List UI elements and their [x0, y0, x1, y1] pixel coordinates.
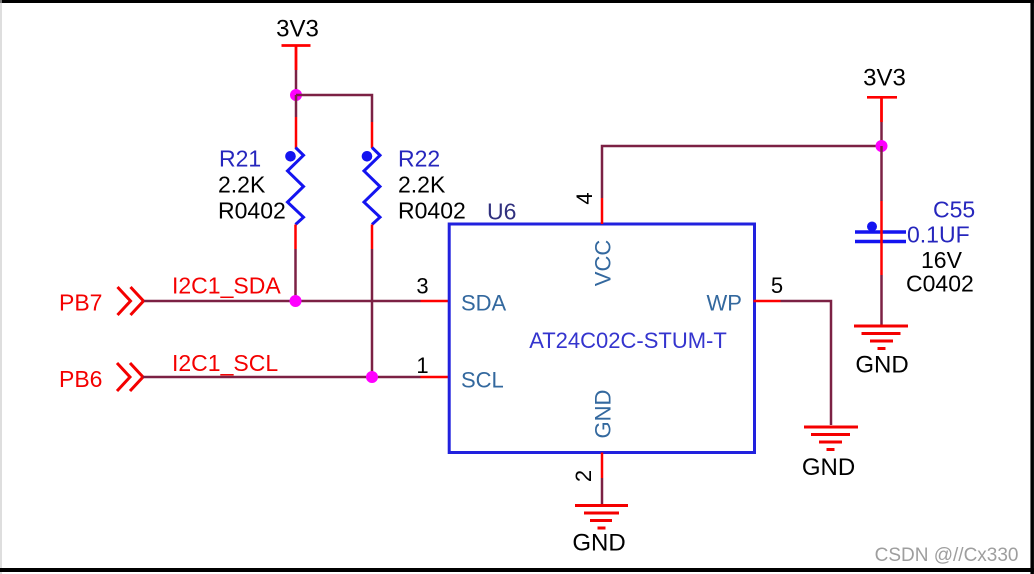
- svg-text:GND: GND: [591, 390, 616, 439]
- pin R22 top: [371, 122, 374, 148]
- pin R21 bottom: [294, 225, 297, 250]
- svg-text:SDA: SDA: [461, 291, 507, 316]
- wire 3V3 right to junction: [880, 122, 883, 146]
- svg-text:I2C1_SDA: I2C1_SDA: [172, 273, 281, 299]
- svg-text:16V: 16V: [921, 247, 963, 273]
- node junction VCC: [876, 140, 888, 152]
- svg-text:R0402: R0402: [398, 198, 466, 224]
- wire SDA: [144, 300, 421, 303]
- svg-text:CSDN @//Cx330: CSDN @//Cx330: [875, 545, 1019, 566]
- ground WP: [802, 427, 858, 481]
- node junction 3V3: [290, 89, 302, 101]
- svg-text:I2C1_SCL: I2C1_SCL: [172, 350, 278, 376]
- node junction SDA: [290, 295, 302, 307]
- pin R22 bottom: [371, 225, 374, 250]
- wire junction to C55: [880, 146, 883, 201]
- power port 3V3 right: [863, 65, 906, 123]
- svg-text:1: 1: [416, 353, 428, 378]
- wire C55 to ground: [880, 275, 883, 326]
- svg-text:0.1UF: 0.1UF: [907, 222, 970, 248]
- svg-text:WP: WP: [707, 291, 742, 316]
- svg-text:2.2K: 2.2K: [218, 172, 266, 198]
- svg-text:U6: U6: [487, 199, 516, 225]
- wire pin2 to ground: [601, 478, 604, 504]
- pin 5 WP stub: [754, 300, 781, 303]
- pin U6 SDA stub: [421, 300, 451, 303]
- svg-text:SCL: SCL: [461, 368, 504, 393]
- svg-text:R21: R21: [219, 146, 261, 172]
- resistor R22: [362, 148, 380, 225]
- pin C55 bottom: [880, 236, 883, 275]
- svg-text:AT24C02C-STUM-T: AT24C02C-STUM-T: [529, 328, 727, 353]
- svg-text:C55: C55: [933, 197, 975, 223]
- svg-text:2: 2: [571, 470, 596, 482]
- capacitor C55: [855, 222, 906, 242]
- svg-text:2.2K: 2.2K: [398, 172, 446, 198]
- op-amp U6 body: [449, 224, 754, 453]
- pin U6 SCL stub: [421, 376, 451, 379]
- pin 4 VCC stub: [601, 198, 604, 224]
- svg-text:VCC: VCC: [591, 240, 616, 287]
- svg-text:5: 5: [771, 273, 783, 298]
- wire junction down to R21: [295, 95, 298, 117]
- pin R21 top: [295, 117, 298, 148]
- svg-text:4: 4: [572, 192, 597, 204]
- svg-text:GND: GND: [802, 454, 855, 481]
- ground C55: [854, 326, 909, 379]
- svg-text:3: 3: [416, 274, 428, 299]
- node junction SCL: [366, 371, 378, 383]
- wire junction to R22 branch: [296, 95, 372, 122]
- wire R22 to SCL: [371, 249, 374, 377]
- port PB7: [59, 287, 144, 316]
- wire SCL: [143, 376, 421, 379]
- ground U6: [572, 506, 628, 557]
- wire R21 to SDA: [294, 249, 297, 301]
- resistor R21: [285, 148, 303, 225]
- wire 3V3 to junction: [295, 70, 298, 95]
- pin 2 GND stub: [601, 453, 604, 479]
- wire VCC: [602, 146, 881, 198]
- svg-text:GND: GND: [855, 352, 908, 379]
- svg-text:C0402: C0402: [906, 271, 974, 297]
- wire WP to ground: [781, 301, 832, 425]
- svg-text:3V3: 3V3: [863, 65, 906, 92]
- svg-text:PB6: PB6: [59, 366, 102, 392]
- port PB6: [59, 363, 143, 392]
- svg-text:PB7: PB7: [59, 290, 102, 316]
- svg-text:R0402: R0402: [218, 198, 286, 224]
- power port 3V3 left: [276, 16, 319, 71]
- svg-text:3V3: 3V3: [276, 16, 319, 43]
- svg-text:GND: GND: [572, 530, 625, 557]
- svg-text:R22: R22: [398, 146, 440, 172]
- pin C55 top: [880, 201, 883, 236]
